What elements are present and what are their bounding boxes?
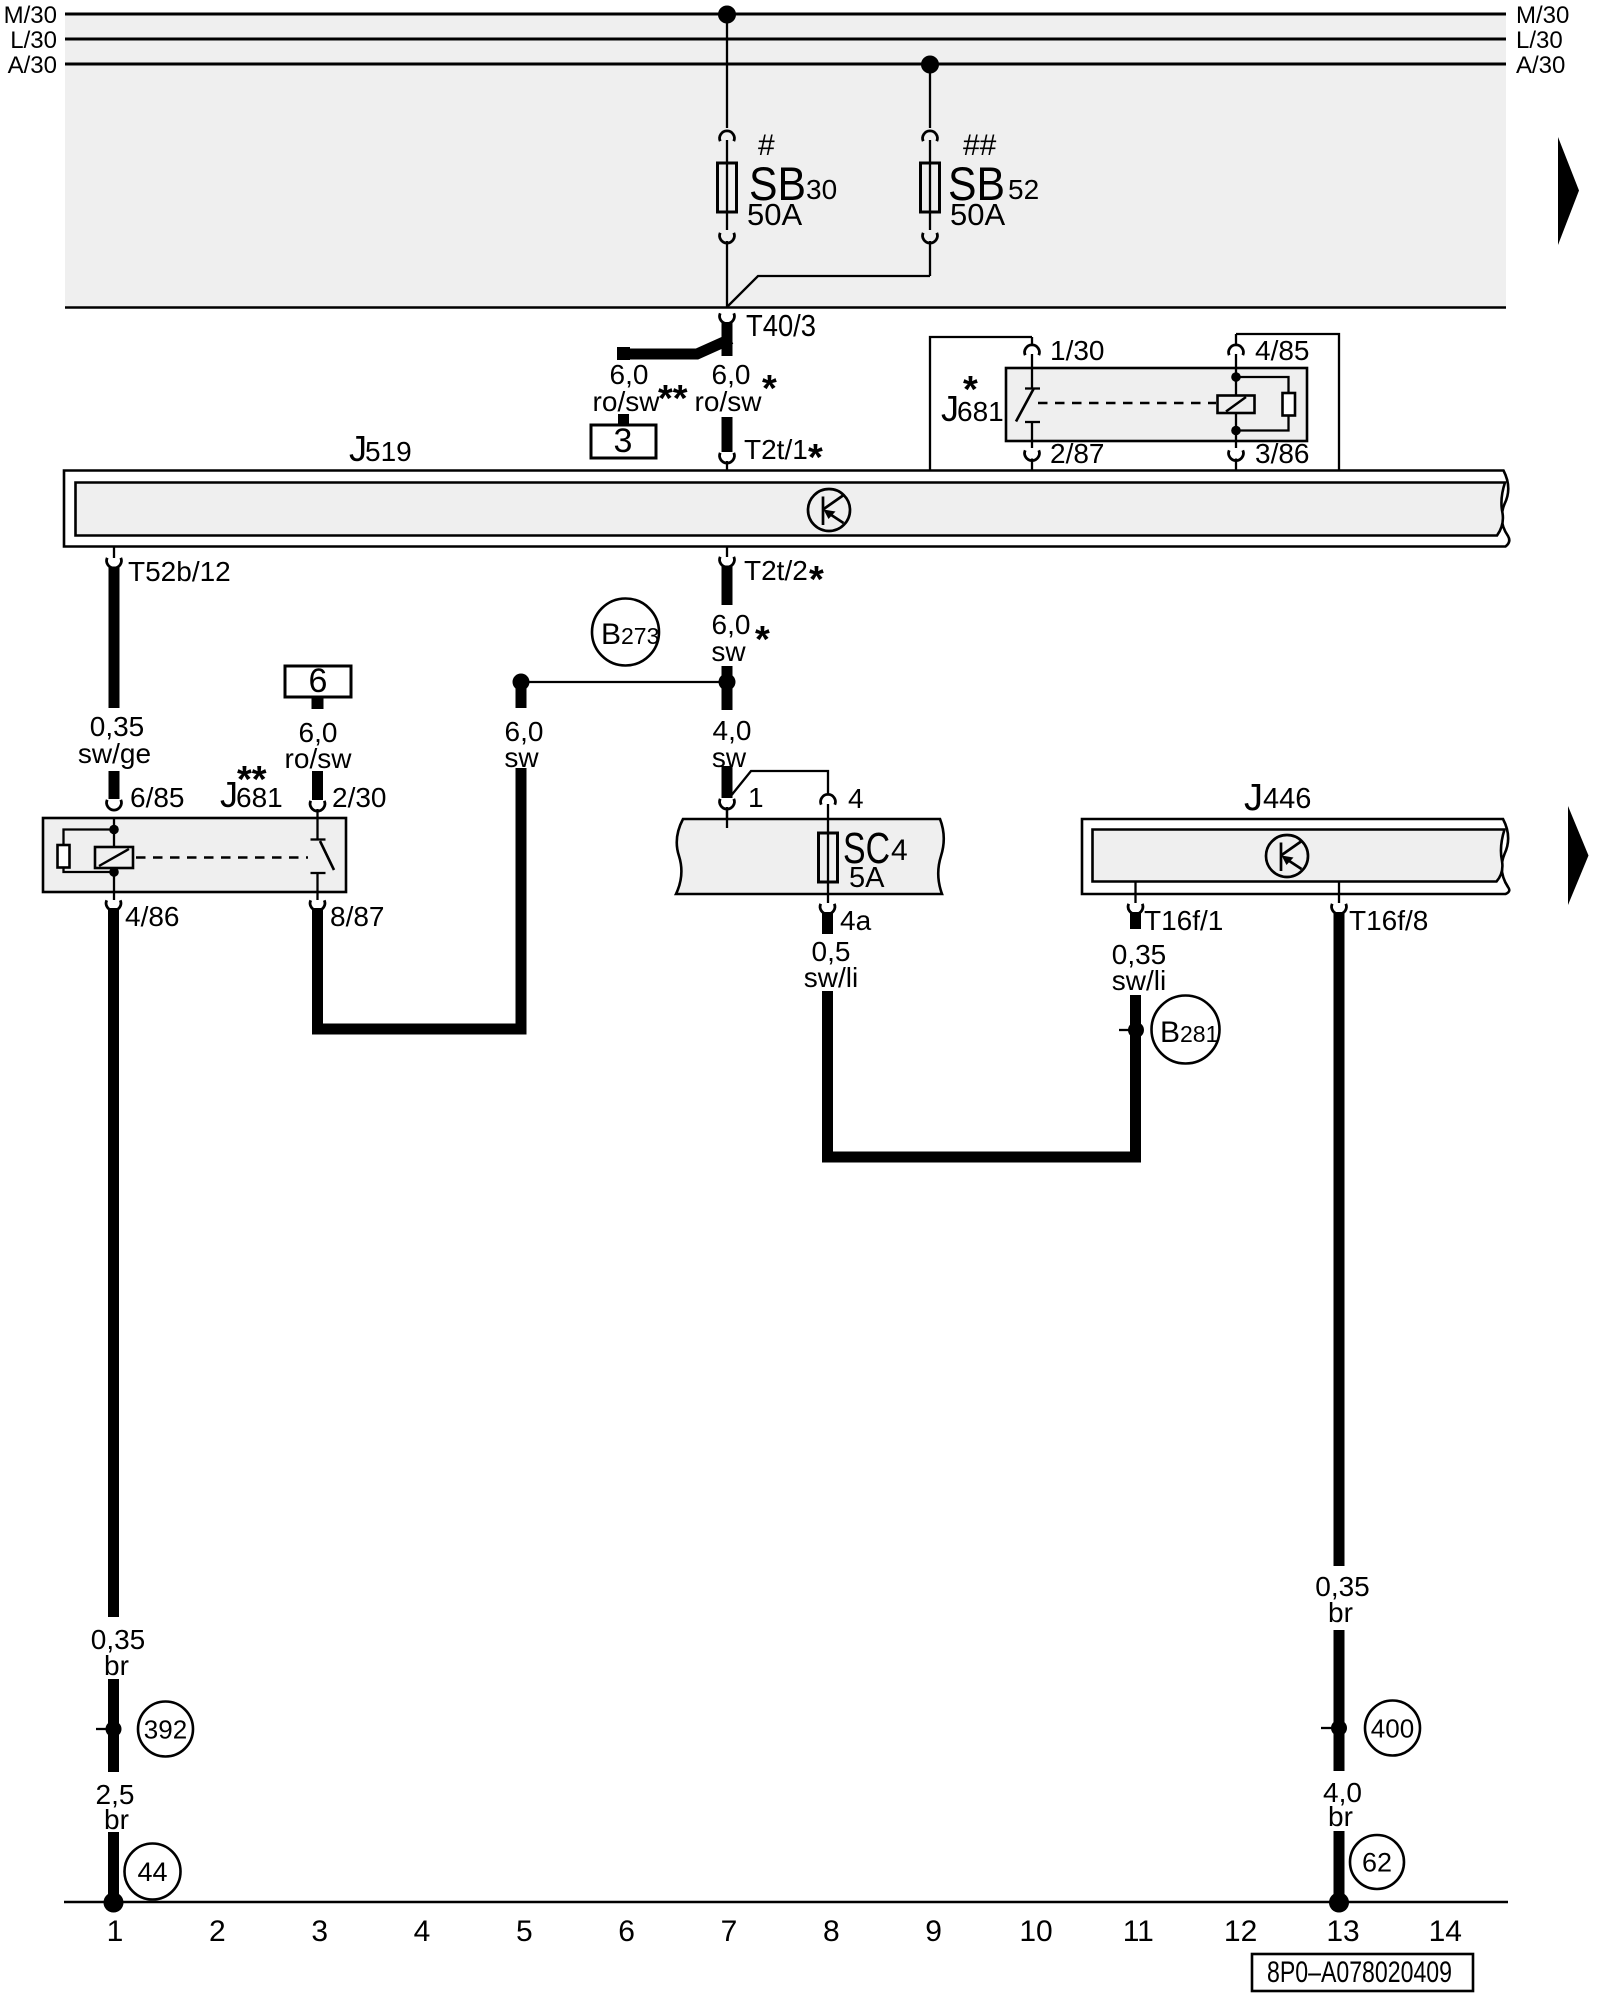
- svg-text:7: 7: [721, 1915, 738, 1948]
- svg-text:62: 62: [1362, 1848, 1392, 1878]
- svg-text:ro/sw: ro/sw: [695, 386, 763, 417]
- svg-text:br: br: [104, 1804, 129, 1835]
- svg-text:5: 5: [516, 1915, 533, 1948]
- svg-text:L/30: L/30: [1516, 27, 1563, 54]
- svg-text:400: 400: [1371, 1714, 1414, 1744]
- svg-text:392: 392: [144, 1715, 187, 1745]
- svg-text:4/86: 4/86: [125, 901, 180, 932]
- svg-text:4: 4: [891, 834, 908, 867]
- svg-text:sw: sw: [711, 636, 746, 667]
- svg-text:sw/ge: sw/ge: [78, 738, 151, 769]
- svg-text:J: J: [1244, 777, 1263, 819]
- svg-text:*: *: [755, 619, 770, 661]
- svg-text:**: **: [658, 378, 688, 420]
- svg-text:1/30: 1/30: [1050, 335, 1105, 366]
- svg-text:4: 4: [848, 783, 864, 814]
- svg-text:*: *: [762, 368, 777, 410]
- svg-text:8: 8: [823, 1915, 840, 1948]
- svg-text:T52b/12: T52b/12: [128, 556, 231, 587]
- svg-text:273: 273: [621, 623, 659, 649]
- svg-text:T40/3: T40/3: [746, 308, 816, 343]
- svg-text:44: 44: [137, 1857, 167, 1887]
- svg-text:M/30: M/30: [4, 2, 57, 29]
- svg-text:br: br: [1328, 1597, 1353, 1628]
- svg-text:B: B: [601, 618, 621, 651]
- svg-text:*: *: [809, 559, 824, 601]
- svg-text:M/30: M/30: [1516, 2, 1569, 29]
- svg-text:6: 6: [618, 1915, 635, 1948]
- svg-text:3/86: 3/86: [1255, 438, 1310, 469]
- svg-text:3: 3: [614, 422, 633, 460]
- svg-text:3: 3: [311, 1915, 328, 1948]
- svg-text:4: 4: [414, 1915, 431, 1948]
- svg-text:50A: 50A: [950, 197, 1005, 232]
- svg-text:4a: 4a: [840, 905, 872, 936]
- svg-text:30: 30: [806, 174, 837, 205]
- svg-text:B: B: [1160, 1016, 1180, 1049]
- svg-text:2/30: 2/30: [332, 782, 387, 813]
- svg-text:1: 1: [107, 1915, 124, 1948]
- svg-text:T16f/1: T16f/1: [1144, 905, 1223, 936]
- svg-text:6/85: 6/85: [130, 782, 185, 813]
- svg-text:281: 281: [1180, 1021, 1218, 1047]
- svg-text:4/85: 4/85: [1255, 335, 1310, 366]
- svg-text:14: 14: [1429, 1915, 1462, 1948]
- svg-text:ro/sw: ro/sw: [285, 743, 353, 774]
- svg-text:8P0–A078020409: 8P0–A078020409: [1267, 1956, 1452, 1989]
- svg-text:T2t/1: T2t/1: [744, 434, 808, 465]
- svg-text:13: 13: [1326, 1915, 1359, 1948]
- svg-text:2/87: 2/87: [1050, 438, 1105, 469]
- svg-text:br: br: [104, 1650, 129, 1681]
- svg-text:12: 12: [1224, 1915, 1257, 1948]
- svg-text:br: br: [1328, 1801, 1353, 1832]
- svg-text:519: 519: [365, 436, 412, 467]
- svg-text:T16f/8: T16f/8: [1349, 905, 1428, 936]
- svg-text:A/30: A/30: [1516, 52, 1565, 79]
- svg-text:9: 9: [925, 1915, 942, 1948]
- svg-text:2: 2: [209, 1915, 226, 1948]
- svg-text:A/30: A/30: [8, 52, 57, 79]
- svg-text:8/87: 8/87: [330, 901, 385, 932]
- svg-text:681: 681: [236, 782, 283, 813]
- svg-text:6: 6: [309, 662, 328, 700]
- svg-text:446: 446: [1263, 783, 1311, 815]
- svg-text:sw/li: sw/li: [804, 962, 858, 993]
- svg-text:1: 1: [748, 782, 764, 813]
- svg-text:10: 10: [1019, 1915, 1052, 1948]
- svg-text:5A: 5A: [849, 862, 885, 894]
- svg-text:50A: 50A: [747, 197, 802, 232]
- svg-text:52: 52: [1008, 174, 1039, 205]
- svg-text:*: *: [963, 369, 978, 411]
- svg-text:sw/li: sw/li: [1112, 965, 1166, 996]
- svg-text:11: 11: [1123, 1915, 1154, 1948]
- svg-text:ro/sw: ro/sw: [593, 386, 661, 417]
- svg-text:T2t/2: T2t/2: [744, 555, 808, 586]
- svg-text:L/30: L/30: [10, 27, 57, 54]
